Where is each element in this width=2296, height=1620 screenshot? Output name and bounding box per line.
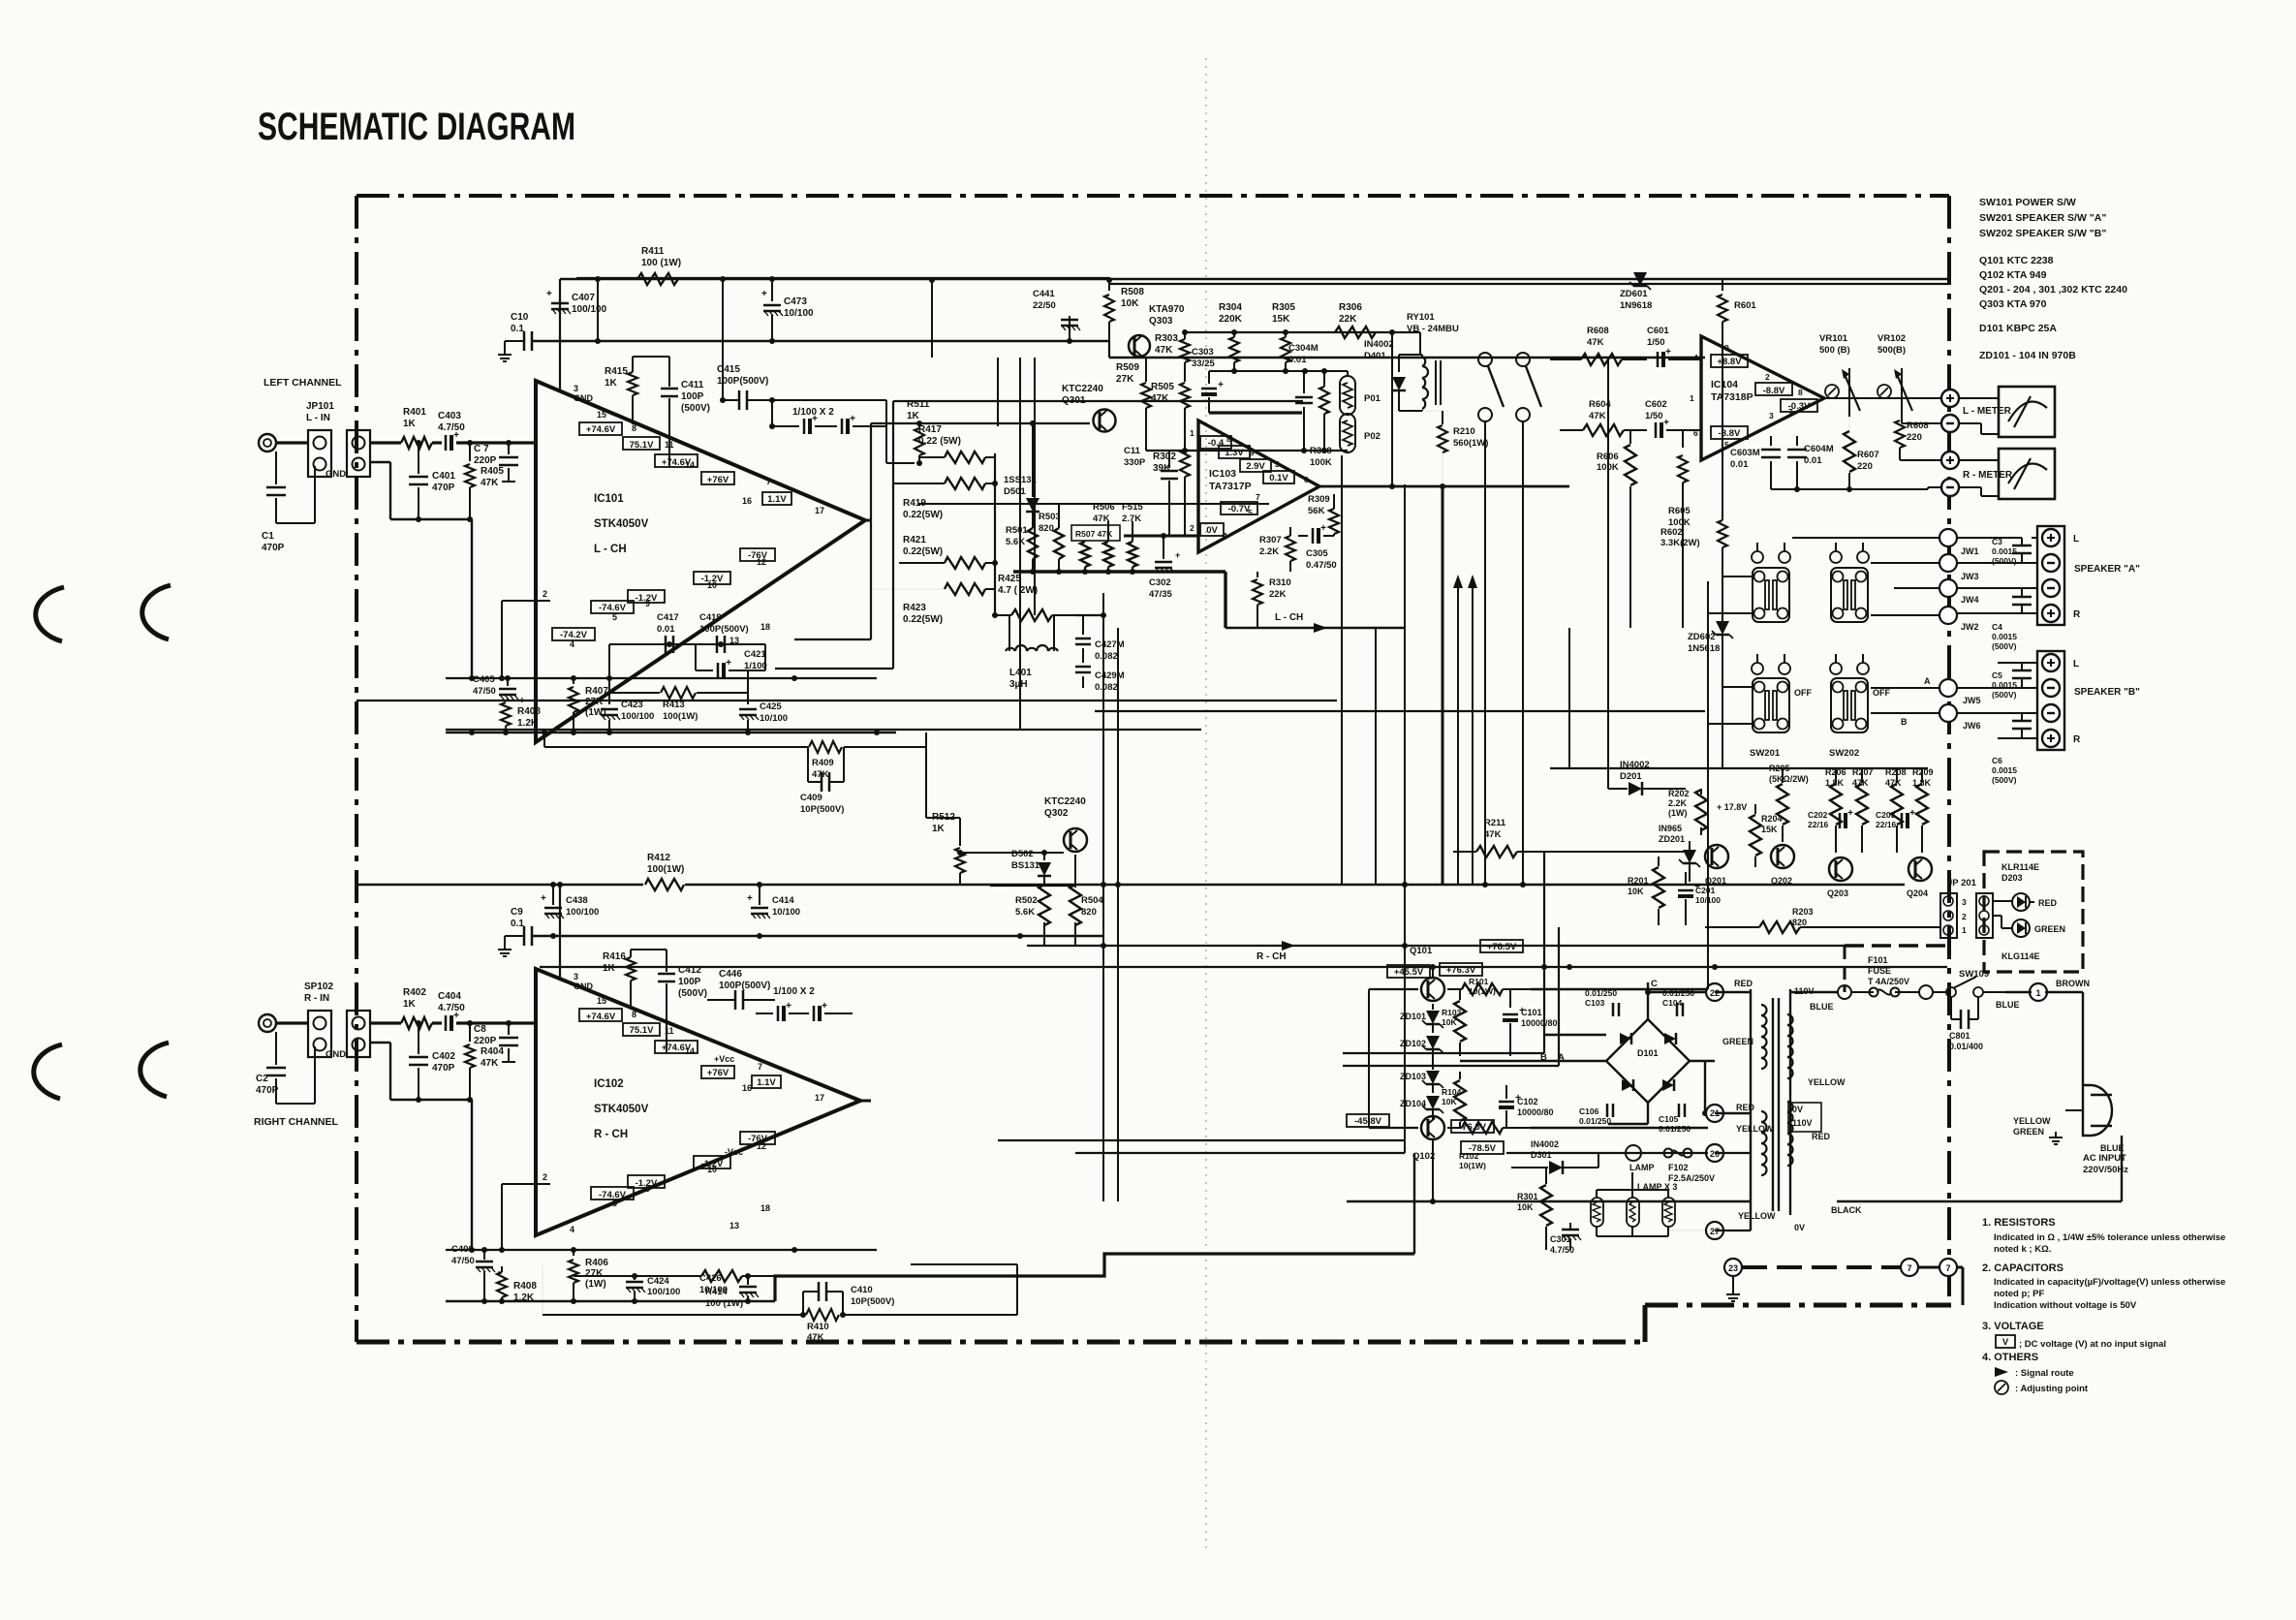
capacitor C105 bbox=[1678, 1104, 1681, 1117]
wire JP201-LED bbox=[1993, 900, 2012, 902]
wire w72 bbox=[1957, 537, 2022, 539]
svg-text:TA7317P: TA7317P bbox=[1209, 481, 1252, 492]
wire w76 bbox=[1957, 687, 2037, 689]
wire w15 bbox=[998, 1139, 1405, 1141]
wire w50 bbox=[1404, 484, 1406, 885]
resistor R204 bbox=[1750, 815, 1761, 856]
capacitor C7 bbox=[508, 443, 510, 454]
connector JP101b bbox=[347, 430, 370, 477]
svg-text:C2: C2 bbox=[256, 1074, 268, 1084]
svg-text:9: 9 bbox=[1250, 448, 1255, 457]
svg-text:100/100: 100/100 bbox=[566, 907, 599, 918]
resistor R502 bbox=[1039, 885, 1050, 925]
svg-text:C401: C401 bbox=[432, 471, 455, 482]
svg-text:R412: R412 bbox=[647, 853, 670, 863]
svg-text:47K: 47K bbox=[481, 1058, 499, 1069]
svg-text:100P: 100P bbox=[681, 391, 704, 402]
svg-text:RED: RED bbox=[1734, 979, 1753, 988]
voltage +45.5V bbox=[1387, 965, 1430, 978]
svg-text:1.1V: 1.1V bbox=[757, 1077, 776, 1088]
svg-text:820: 820 bbox=[1792, 918, 1807, 927]
svg-text:47K: 47K bbox=[1151, 393, 1169, 404]
svg-text:Q303 KTA 970: Q303 KTA 970 bbox=[1979, 298, 2047, 310]
svg-text:+: + bbox=[1663, 418, 1669, 428]
svg-text:SCHEMATIC DIAGRAM: SCHEMATIC DIAGRAM bbox=[258, 106, 575, 148]
svg-text:C305: C305 bbox=[1306, 548, 1328, 559]
svg-text:(500V): (500V) bbox=[1992, 775, 2017, 785]
svg-text:C417: C417 bbox=[657, 612, 679, 623]
svg-text:R - CH: R - CH bbox=[594, 1129, 628, 1140]
svg-text:R101: R101 bbox=[1469, 977, 1489, 986]
svg-text:47/50: 47/50 bbox=[473, 686, 496, 697]
svg-text:Q201 - 204 , 301 ,302 KTC 22: Q201 - 204 , 301 ,302 KTC 2240 bbox=[1979, 284, 2127, 296]
wire pin2 bold bbox=[1124, 535, 1198, 538]
diode D401 bbox=[1398, 355, 1400, 372]
svg-text:D203: D203 bbox=[2001, 873, 2023, 883]
wire w74 bbox=[1957, 587, 2037, 589]
svg-text:4: 4 bbox=[570, 1225, 574, 1234]
capacitor C414 bbox=[759, 885, 760, 905]
svg-text:+: + bbox=[1175, 550, 1180, 560]
rect 0V-110V bbox=[1788, 1103, 1821, 1132]
svg-text:0.01: 0.01 bbox=[1730, 459, 1749, 470]
svg-text:47K: 47K bbox=[1587, 337, 1604, 348]
svg-text:22/16: 22/16 bbox=[1876, 820, 1897, 829]
punch mark 3 bbox=[34, 1044, 62, 1099]
svg-text:BLUE: BLUE bbox=[1810, 1002, 1834, 1012]
svg-text:C4: C4 bbox=[1992, 622, 2002, 632]
wire w68 bbox=[1369, 988, 1418, 990]
wire w10 bbox=[540, 966, 1947, 968]
terminal 27 bbox=[1706, 1222, 1723, 1239]
svg-text:IC104: IC104 bbox=[1711, 379, 1738, 390]
diode D201 bbox=[1629, 782, 1642, 795]
svg-text:R607: R607 bbox=[1857, 450, 1879, 460]
resistor R606 bbox=[1625, 445, 1636, 485]
svg-text:R306: R306 bbox=[1339, 302, 1362, 313]
capacitor C424 bbox=[634, 1276, 636, 1280]
lamp bus top bbox=[1597, 1189, 1668, 1191]
resistor R411 bbox=[637, 273, 678, 285]
svg-text:GND: GND bbox=[574, 981, 594, 991]
resistor R511b bbox=[918, 423, 920, 427]
transistor Q204 bbox=[1908, 857, 1932, 881]
svg-text:5.6K: 5.6K bbox=[1006, 537, 1025, 547]
wire w51 bbox=[1404, 885, 1406, 1153]
resistor R421 bbox=[945, 557, 985, 569]
svg-text:IN4002: IN4002 bbox=[1620, 760, 1650, 770]
zener ZD101 bbox=[1426, 1011, 1440, 1024]
fuse F102 bbox=[1664, 1149, 1673, 1158]
svg-text:C425: C425 bbox=[760, 701, 782, 712]
svg-text:1: 1 bbox=[1190, 428, 1195, 438]
svg-text:9: 9 bbox=[1724, 343, 1729, 353]
resistor R504 bbox=[1070, 885, 1081, 925]
svg-text:1K: 1K bbox=[907, 411, 920, 421]
wire w78 bbox=[1998, 662, 2037, 664]
capacitor C423 bbox=[601, 708, 618, 711]
svg-text:22K: 22K bbox=[1339, 314, 1357, 325]
svg-text:GND: GND bbox=[574, 393, 594, 403]
wire under IC101a bbox=[446, 677, 877, 679]
svg-text:R409: R409 bbox=[812, 758, 834, 768]
svg-text:0V: 0V bbox=[1794, 1223, 1805, 1232]
svg-text:0.22(5W): 0.22(5W) bbox=[903, 546, 943, 557]
wire SW-JW left bbox=[1792, 537, 1939, 539]
resistor R505 bbox=[1184, 372, 1186, 382]
transistor Q201 bbox=[1705, 845, 1728, 868]
svg-text:100 (1W): 100 (1W) bbox=[705, 1298, 743, 1309]
terminal 7b bbox=[1939, 1259, 1957, 1276]
notes adjusting point bbox=[1995, 1381, 2008, 1394]
svg-text:1K: 1K bbox=[605, 378, 618, 389]
border frame bottom-left bbox=[357, 1340, 1645, 1345]
wire gnd bus R bbox=[390, 1099, 472, 1101]
capacitor C406 bbox=[483, 1250, 485, 1260]
punch mark 4 bbox=[140, 1043, 169, 1097]
svg-text:OFF: OFF bbox=[1873, 688, 1890, 698]
svg-text:C303: C303 bbox=[1192, 347, 1214, 358]
svg-text:KLR114E: KLR114E bbox=[2001, 862, 2039, 872]
voltage -78.5V bbox=[1461, 1141, 1504, 1154]
lamp bus bottom bbox=[1596, 1227, 1598, 1236]
svg-text:SW201: SW201 bbox=[1750, 748, 1781, 759]
svg-text:R302: R302 bbox=[1153, 452, 1176, 462]
wire w57 bbox=[1607, 359, 1609, 789]
svg-text:JW6: JW6 bbox=[1963, 721, 1981, 731]
switch SW201 unit2 bbox=[1831, 568, 1868, 622]
svg-text:Q102: Q102 bbox=[1412, 1151, 1435, 1162]
svg-text:14: 14 bbox=[685, 1046, 695, 1056]
svg-text:+: + bbox=[786, 1001, 791, 1012]
svg-text:(1W): (1W) bbox=[585, 1279, 606, 1290]
svg-text:LAMP: LAMP bbox=[1629, 1163, 1655, 1172]
svg-text:100/100: 100/100 bbox=[572, 304, 607, 315]
wire bridge-22 bbox=[1648, 991, 1706, 993]
lamp symbol bbox=[1626, 1145, 1641, 1161]
relay contact 2 bbox=[1516, 353, 1530, 366]
bridge D101 bbox=[1606, 1019, 1690, 1103]
resistor R423 bbox=[945, 583, 985, 595]
wire w49 bbox=[1375, 628, 1377, 885]
svg-text:10K: 10K bbox=[1121, 298, 1139, 309]
resistor F515 bbox=[1128, 542, 1137, 567]
ground 23 bbox=[1732, 1276, 1734, 1289]
speaker A block bbox=[2037, 526, 2064, 625]
capacitor C304M bbox=[1303, 371, 1305, 393]
wire w11 bbox=[990, 885, 1075, 887]
svg-text:C419: C419 bbox=[699, 612, 722, 623]
wire heavy RCH return bbox=[775, 1254, 1414, 1301]
svg-text:R407: R407 bbox=[585, 686, 608, 697]
svg-text:Q301: Q301 bbox=[1062, 395, 1086, 406]
svg-text:R - CH: R - CH bbox=[1257, 951, 1287, 962]
pot P02 bbox=[1340, 414, 1355, 452]
punch mark 1 bbox=[36, 587, 64, 641]
svg-text:R211: R211 bbox=[1484, 818, 1506, 828]
svg-text:4: 4 bbox=[1223, 531, 1227, 541]
svg-text:STK4050V: STK4050V bbox=[594, 518, 649, 530]
resistor R608 bbox=[1581, 354, 1622, 365]
svg-text:0.47/50: 0.47/50 bbox=[1306, 560, 1337, 571]
resistor R211 bbox=[1476, 846, 1517, 857]
wire w26 bbox=[1715, 1112, 1751, 1114]
svg-text:(500V): (500V) bbox=[1992, 556, 2017, 566]
svg-text:T 4A/250V: T 4A/250V bbox=[1868, 977, 1909, 986]
svg-text:C202: C202 bbox=[1808, 810, 1828, 820]
resistor R604 bbox=[1583, 424, 1624, 436]
svg-text:10K: 10K bbox=[1442, 1097, 1457, 1106]
svg-text:3: 3 bbox=[1962, 897, 1967, 907]
capacitor C410 bbox=[818, 1282, 821, 1301]
wire rail y343 bbox=[1185, 331, 1420, 333]
svg-text:C414: C414 bbox=[772, 895, 794, 906]
svg-text:1.1V: 1.1V bbox=[767, 494, 787, 505]
svg-text:L - CH: L - CH bbox=[594, 544, 627, 555]
svg-text:C11: C11 bbox=[1124, 446, 1141, 456]
svg-text:R301: R301 bbox=[1517, 1192, 1538, 1201]
wire w16 bbox=[1347, 1200, 1751, 1202]
svg-text:C409: C409 bbox=[800, 793, 822, 803]
svg-text:R608: R608 bbox=[1907, 421, 1929, 431]
svg-text:1.8K: 1.8K bbox=[1825, 778, 1845, 788]
svg-text:100(1W): 100(1W) bbox=[647, 864, 684, 875]
svg-text:1.3V: 1.3V bbox=[1225, 448, 1244, 458]
resistor R305 bbox=[1285, 332, 1287, 337]
svg-text:R502: R502 bbox=[1015, 895, 1038, 906]
resistor R417 bbox=[945, 452, 985, 463]
terminal L-meter plus bbox=[1941, 389, 1959, 407]
resistor R307 bbox=[1286, 536, 1295, 561]
svg-text:-74.6V: -74.6V bbox=[599, 603, 627, 613]
wire R402-C404 bbox=[432, 1021, 442, 1024]
svg-text:100/100: 100/100 bbox=[621, 711, 654, 722]
wire w54 bbox=[1543, 852, 1545, 1053]
svg-text:2.2K: 2.2K bbox=[1259, 546, 1279, 557]
svg-text:C411: C411 bbox=[681, 380, 704, 390]
svg-text:R508: R508 bbox=[1121, 287, 1144, 297]
svg-text:+76V: +76V bbox=[707, 475, 729, 485]
resistor R605 bbox=[1678, 455, 1688, 483]
svg-text:R102: R102 bbox=[1459, 1151, 1479, 1161]
svg-text:(500V): (500V) bbox=[1992, 690, 2017, 700]
wire x629 bbox=[608, 644, 610, 704]
svg-text:18: 18 bbox=[760, 1203, 770, 1213]
transistor Q102 bbox=[1421, 1116, 1444, 1139]
svg-text:3. VOLTAGE: 3. VOLTAGE bbox=[1982, 1321, 2044, 1332]
svg-text:GREEN: GREEN bbox=[2034, 924, 2065, 934]
svg-text:0.01: 0.01 bbox=[657, 624, 675, 635]
svg-text:C438: C438 bbox=[566, 895, 588, 906]
svg-text:R203: R203 bbox=[1792, 907, 1814, 917]
svg-text:: Signal route: : Signal route bbox=[2015, 1368, 2074, 1379]
svg-text:22/16: 22/16 bbox=[1808, 820, 1829, 829]
svg-text:220P: 220P bbox=[474, 1036, 497, 1046]
resistor R404 bbox=[469, 1023, 471, 1042]
wire w55 bbox=[1558, 927, 1560, 1066]
svg-text:470P: 470P bbox=[432, 1063, 455, 1074]
svg-text:RED: RED bbox=[1812, 1132, 1831, 1141]
svg-text:D501: D501 bbox=[1004, 486, 1026, 497]
svg-text:2: 2 bbox=[543, 1172, 547, 1182]
svg-text:R425: R425 bbox=[998, 574, 1021, 584]
wire w21 bbox=[1531, 1127, 1708, 1129]
svg-text:0V: 0V bbox=[1792, 1105, 1803, 1114]
svg-text:-76V: -76V bbox=[748, 550, 768, 561]
connector JP201b bbox=[1976, 893, 1993, 938]
capacitor C3 bbox=[2012, 545, 2032, 547]
resistor R209 bbox=[1916, 784, 1928, 825]
svg-text:F101: F101 bbox=[1868, 955, 1888, 965]
capacitor C441 bbox=[1069, 316, 1070, 341]
svg-text:C441: C441 bbox=[1033, 289, 1055, 299]
capacitor C104 bbox=[1676, 1003, 1679, 1016]
svg-text:D401: D401 bbox=[1364, 351, 1386, 361]
svg-text:0.1V: 0.1V bbox=[1269, 473, 1288, 483]
op-amp IC103 bbox=[1198, 421, 1319, 552]
transistor Q301 bbox=[1094, 410, 1116, 432]
svg-text:+8.8V: +8.8V bbox=[1717, 357, 1742, 367]
wire Q302 base bbox=[960, 852, 1064, 854]
svg-text:+: + bbox=[546, 289, 552, 299]
wire R401-C403 bbox=[432, 441, 442, 444]
resistor R406R bbox=[573, 1250, 574, 1256]
svg-text:-1.2V: -1.2V bbox=[636, 1178, 658, 1189]
capacitor C201 bbox=[1678, 889, 1693, 892]
wire w19 bbox=[1690, 1060, 1715, 1062]
ac plug bbox=[2083, 1085, 2112, 1136]
svg-text:27K: 27K bbox=[585, 697, 604, 707]
wire w59 bbox=[1682, 504, 1684, 628]
svg-text:27K: 27K bbox=[1116, 374, 1134, 385]
svg-text:2.2K: 2.2K bbox=[1668, 798, 1688, 808]
svg-text:R408: R408 bbox=[513, 1281, 537, 1292]
wire w39 bbox=[1019, 358, 1021, 730]
svg-text:IC103: IC103 bbox=[1209, 468, 1236, 480]
svg-text:OFF: OFF bbox=[1794, 688, 1812, 698]
svg-text:D101 KBPC 25A: D101 KBPC 25A bbox=[1979, 323, 2057, 334]
resistor R413 bbox=[661, 687, 696, 699]
wire w60 bbox=[1707, 581, 1709, 989]
svg-text:C407: C407 bbox=[572, 293, 595, 303]
svg-text:R602: R602 bbox=[1660, 527, 1683, 538]
capacitor C106 bbox=[1606, 1104, 1609, 1117]
svg-text:(1W): (1W) bbox=[1668, 808, 1688, 818]
svg-text:SW201 SPEAKER S/W "A": SW201 SPEAKER S/W "A" bbox=[1979, 212, 2106, 224]
capacitor C446 bbox=[734, 990, 737, 1010]
capacitor C409 bbox=[821, 772, 823, 792]
border frame left bbox=[355, 196, 358, 1342]
svg-text:C8: C8 bbox=[474, 1024, 486, 1035]
wire w5 bbox=[1095, 710, 1705, 712]
svg-text:R205: R205 bbox=[1769, 763, 1790, 773]
svg-text:R104: R104 bbox=[1442, 1087, 1462, 1097]
terminal R-meter plus bbox=[1941, 452, 1959, 469]
svg-text:0.22(5W): 0.22(5W) bbox=[903, 614, 943, 625]
svg-text:R601: R601 bbox=[1734, 300, 1756, 311]
svg-text:+: + bbox=[747, 893, 753, 904]
svg-text:+78.5V: +78.5V bbox=[1487, 942, 1517, 952]
op-amp IC101 bbox=[536, 381, 865, 742]
svg-text:100P(500V): 100P(500V) bbox=[719, 981, 770, 991]
capacitor 1/100 X 2 bbox=[803, 419, 806, 434]
svg-text:10/100: 10/100 bbox=[784, 308, 814, 319]
svg-text:R - IN: R - IN bbox=[304, 993, 329, 1004]
resistor R101 bbox=[1462, 983, 1503, 995]
svg-text:8: 8 bbox=[1226, 434, 1231, 444]
wire w7 bbox=[357, 884, 643, 887]
svg-text:47K: 47K bbox=[481, 478, 499, 488]
svg-text:7: 7 bbox=[766, 477, 771, 486]
svg-text:C302: C302 bbox=[1149, 577, 1171, 588]
wire row 771 bbox=[544, 746, 808, 748]
resistor R405 bbox=[469, 443, 471, 461]
svg-text:C602: C602 bbox=[1645, 399, 1667, 410]
wire bus 1343 bbox=[446, 1300, 775, 1303]
relay RY101 coil bbox=[1422, 357, 1425, 366]
capacitor C1 bbox=[275, 452, 277, 484]
wire under IC102a bbox=[446, 1249, 877, 1251]
wire row 1357 bbox=[543, 1314, 803, 1316]
resistor R207 bbox=[1856, 784, 1868, 825]
svg-text:BS131: BS131 bbox=[1011, 860, 1040, 871]
svg-text:16: 16 bbox=[742, 1083, 752, 1093]
svg-text:0.1: 0.1 bbox=[511, 324, 524, 334]
svg-text:47K: 47K bbox=[1484, 829, 1502, 840]
svg-text:100/100: 100/100 bbox=[647, 1287, 680, 1297]
terminal 7a bbox=[1901, 1259, 1918, 1276]
svg-text:Indicated in capacity(µF)/volt: Indicated in capacity(µF)/voltage(V) unl… bbox=[1994, 1277, 2225, 1288]
zener ZD102 bbox=[1426, 1036, 1440, 1049]
svg-text:17: 17 bbox=[815, 1093, 824, 1103]
svg-text:Indicated in Ω , 1/4W ±5% tol: Indicated in Ω , 1/4W ±5% tolerance unle… bbox=[1994, 1232, 2225, 1243]
svg-text:6: 6 bbox=[1304, 475, 1309, 484]
resistor R602b bbox=[1718, 520, 1727, 547]
notes voltage detail bbox=[1996, 1335, 2015, 1348]
wire w77 bbox=[1957, 712, 2037, 714]
capacitor C101 bbox=[1503, 1013, 1518, 1016]
page fold line bbox=[1205, 58, 1207, 1550]
resistor R419 bbox=[945, 478, 985, 489]
voltage +76.3V bbox=[1440, 963, 1482, 976]
wire R input bbox=[370, 1021, 401, 1024]
capacitor C305 bbox=[1312, 528, 1315, 544]
resistor R509 bbox=[1145, 357, 1147, 382]
bold rail y590 bbox=[1013, 570, 1226, 573]
svg-text:R423: R423 bbox=[903, 603, 926, 613]
svg-text:+: + bbox=[1665, 347, 1671, 358]
svg-text:15: 15 bbox=[597, 410, 606, 420]
terminal JW5 bbox=[1939, 679, 1957, 697]
svg-text:0.01: 0.01 bbox=[1804, 455, 1822, 466]
svg-text:R - METER: R - METER bbox=[1963, 470, 2013, 481]
svg-text:+76V: +76V bbox=[707, 1068, 729, 1078]
capacitor C303 bbox=[1201, 388, 1217, 390]
svg-text:0.082: 0.082 bbox=[1095, 651, 1118, 662]
wire C1 gnd bbox=[276, 522, 315, 524]
svg-text:R406: R406 bbox=[585, 1258, 608, 1268]
svg-text:D502: D502 bbox=[1011, 849, 1034, 859]
svg-text:IN4002: IN4002 bbox=[1364, 339, 1394, 350]
svg-text:820: 820 bbox=[1039, 523, 1054, 534]
resistor R402 bbox=[401, 1017, 432, 1029]
wire w56 bbox=[1568, 628, 1570, 768]
svg-text:10K: 10K bbox=[1442, 1017, 1457, 1027]
connector SP102 bbox=[308, 1011, 331, 1057]
svg-text:56K: 56K bbox=[1308, 506, 1325, 516]
svg-text:0.01: 0.01 bbox=[1288, 355, 1307, 365]
wire 7-border bbox=[1918, 1266, 1939, 1269]
